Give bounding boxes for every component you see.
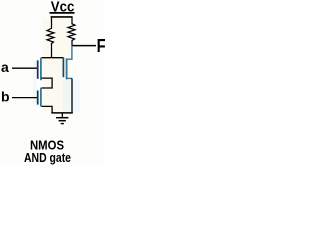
svg-text:b: b (1, 89, 10, 105)
svg-text:F: F (97, 36, 105, 56)
svg-text:a: a (1, 59, 9, 75)
svg-text:AND gate: AND gate (24, 151, 71, 165)
